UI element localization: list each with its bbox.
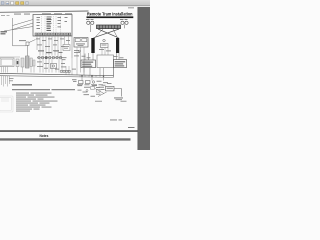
center margin note — [95, 100, 102, 103]
wire drops from module — [37, 35, 69, 58]
left harness wire C — [4, 27, 33, 32]
control module header labels — [14, 13, 72, 14]
fuse drop wire — [27, 45, 29, 56]
splice diagonal wire — [95, 89, 104, 94]
solenoid bar left (dark) — [91, 38, 94, 53]
notes header bar top — [0, 130, 138, 132]
stub label — [114, 97, 123, 100]
cluster drop wires — [102, 48, 108, 56]
diode block D1 — [79, 81, 84, 84]
crossover wire X3 — [95, 29, 104, 38]
lamp unit box (empty) — [97, 55, 114, 68]
sheet corner note — [128, 6, 134, 9]
precautions list — [16, 93, 58, 112]
plug pigtails — [89, 24, 91, 32]
splice tail wires below bus — [2, 76, 10, 87]
notes header bar bottom — [0, 138, 131, 140]
motor box M2 — [114, 60, 127, 68]
splice tags below bus — [72, 79, 77, 82]
bulkhead drop wires — [2, 67, 8, 73]
bulkhead connector housing — [0, 58, 14, 67]
relay K1 label — [76, 43, 85, 46]
column connector bar E — [33, 60, 35, 66]
mid band extra labels — [77, 84, 105, 89]
wiring precautions heading — [12, 84, 32, 85]
footer note B — [128, 126, 135, 129]
dense wire-color labels block — [47, 19, 52, 31]
sheet header line — [0, 11, 89, 12]
bus wire upper — [0, 73, 114, 75]
footer note A — [110, 119, 117, 122]
toolbar icon: folder1 — [16, 2, 19, 5]
bus wire lower — [0, 76, 114, 78]
fuse F1 feed wire — [13, 45, 27, 47]
svg-text:Remote Tram Installation: Remote Tram Installation — [87, 11, 133, 16]
pin label text columns — [37, 17, 68, 29]
crossover wire X1 — [98, 29, 119, 38]
bus corner riser — [113, 68, 115, 78]
viewer dark background band (right side) — [138, 7, 151, 150]
relay drop wires — [77, 47, 84, 58]
bulkhead feed line — [0, 56, 20, 58]
ignition switch row labels above — [38, 50, 63, 53]
switch S1 box — [51, 64, 57, 69]
ignition switch component row — [37, 56, 63, 58]
relay K1 contact b — [82, 39, 87, 42]
column connector bar D — [30, 58, 32, 67]
drop labels row1 — [36, 39, 70, 54]
motor box M1 — [81, 60, 96, 68]
left harness wire A — [13, 20, 34, 26]
sensor circle — [92, 81, 94, 83]
inline connector squares above bus — [61, 70, 71, 72]
K2 wire to stub — [114, 89, 122, 97]
lower cluster drop wires — [82, 76, 104, 81]
center sensor cluster — [103, 39, 105, 41]
wire drops to bus — [40, 58, 84, 75]
junction dots — [81, 75, 82, 76]
key cylinder plug — [16, 59, 19, 67]
column bar pins — [18, 66, 35, 73]
crossover wire X2 — [94, 29, 120, 38]
toolbar icon: page2 — [11, 1, 14, 4]
solenoid bar right (dark) — [116, 38, 119, 53]
column connector hatched bar — [26, 56, 30, 68]
relay K1 box — [74, 38, 88, 48]
solenoid lead labels — [82, 56, 124, 58]
relay drop labels — [74, 49, 79, 52]
control module box U1 — [33, 15, 72, 37]
box drop wires to bus — [84, 68, 104, 76]
terminal pin marks — [36, 34, 71, 35]
fuse branch wire — [29, 40, 36, 43]
labels above bus — [55, 68, 76, 71]
column connector bar B — [21, 58, 24, 67]
left riser wire — [12, 18, 14, 46]
diode block D2 — [86, 81, 91, 84]
right margin note — [121, 100, 127, 103]
relay feed wire — [71, 36, 73, 58]
toolbar icon: folder2 — [21, 2, 24, 5]
toolbar icon: back — [1, 2, 4, 5]
page background — [0, 0, 150, 150]
cluster labels row1 — [78, 81, 109, 97]
left wire label — [1, 31, 8, 32]
splice labels — [9, 78, 14, 81]
left harness wire B — [13, 23, 34, 30]
right connector = two circle plug — [120, 18, 128, 21]
solenoid lead wires — [85, 53, 119, 60]
crossover wire X4 — [113, 29, 118, 38]
inline connector pair — [97, 90, 101, 93]
toolbar icon: page1 — [6, 1, 9, 4]
fuse label — [19, 39, 26, 42]
pin column dashed wires — [42, 16, 61, 33]
note frame box — [63, 45, 70, 51]
relay K2 box — [106, 86, 115, 91]
terminal strip TB1 — [97, 25, 121, 29]
left margin dashes — [1, 14, 5, 17]
ground diagonal wire — [98, 92, 107, 97]
precautions intro line — [12, 89, 50, 90]
left connector = two circle plug — [86, 18, 94, 21]
splice mini box — [91, 87, 95, 90]
ghost stamp box — [0, 96, 13, 112]
row labels below — [37, 62, 66, 69]
svg-text:Notes: Notes — [40, 134, 49, 138]
lower cluster extra labels — [78, 83, 112, 95]
module bottom terminal strip — [35, 33, 71, 35]
fuse F1 — [26, 42, 29, 45]
toolbar icon: tool — [26, 2, 29, 5]
relay K1 contact a — [75, 39, 80, 42]
toolbar — [0, 0, 150, 6]
switch upper labels — [62, 56, 67, 59]
bus tick wires — [80, 75, 100, 77]
title underline — [87, 16, 134, 18]
